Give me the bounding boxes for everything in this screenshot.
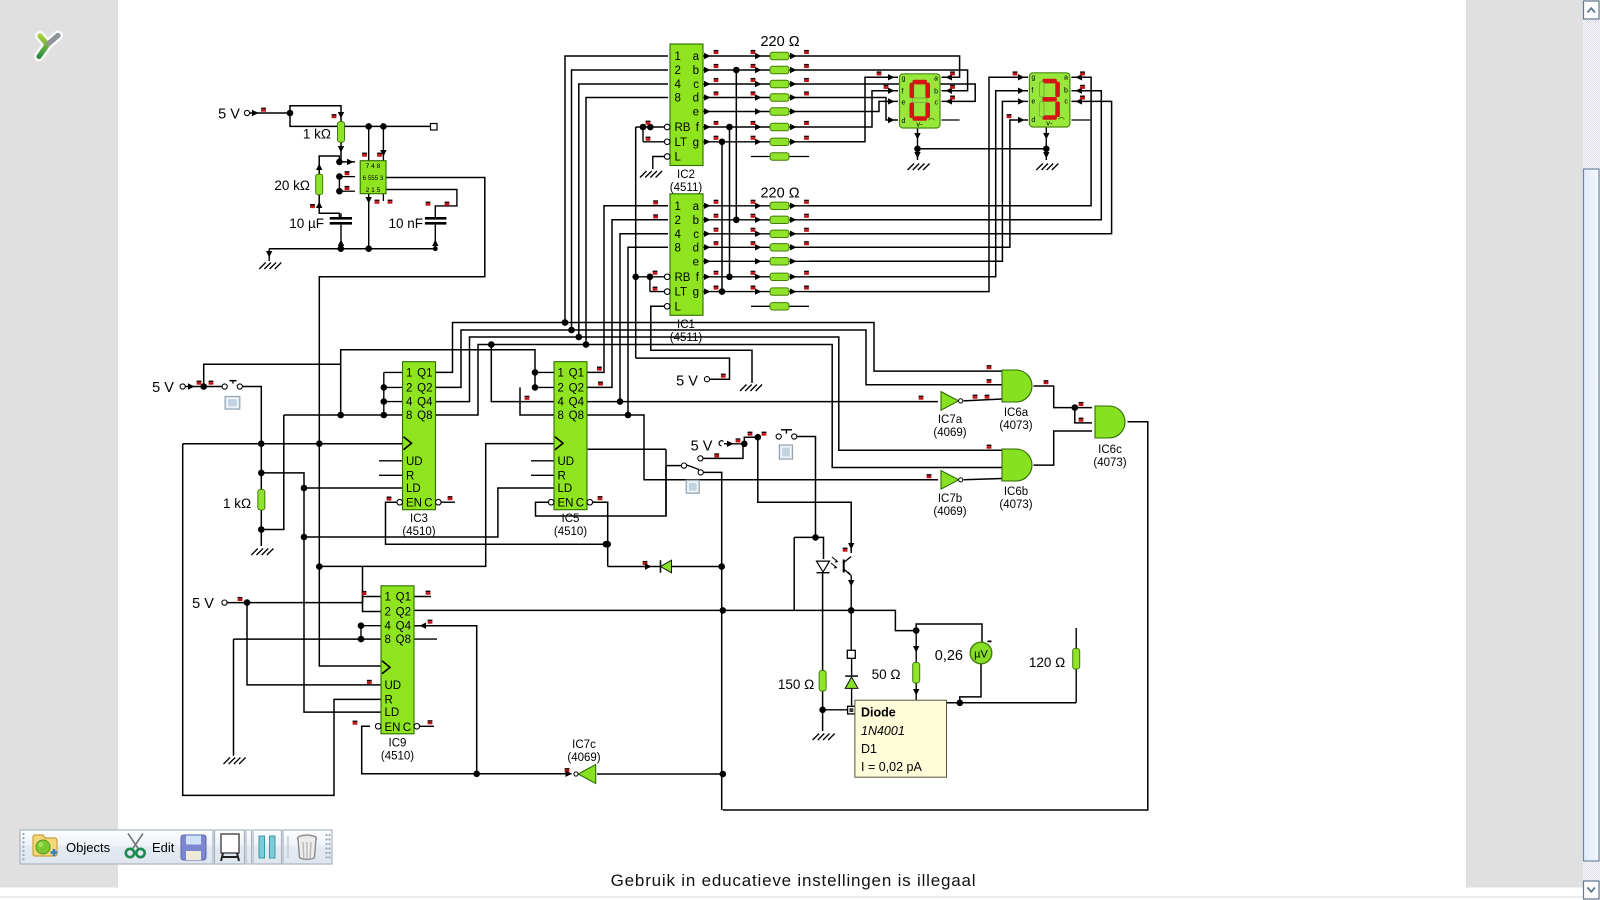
op-amp IC2 (4511): [670, 44, 703, 166]
svg-text:IC3: IC3: [410, 513, 428, 525]
mark IC6a out: [1044, 380, 1049, 382]
wire 120 top stub: [1075, 628, 1077, 649]
wire led left drop: [793, 537, 795, 610]
svg-text:RB: RB: [675, 272, 691, 284]
ground IC2 L: [640, 171, 647, 178]
wire link f-f: [729, 127, 731, 277]
wire 5V wire right: [703, 444, 743, 459]
left grey sidebar: [0, 0, 118, 888]
svg-text:1: 1: [385, 592, 391, 604]
wire 555 out pin3 loop: [319, 178, 485, 667]
wire IC3 Q8 branch to gates: [586, 345, 1002, 468]
wire IC3 EN wire: [386, 502, 606, 544]
wire 150 bottom: [822, 691, 824, 731]
svg-text:7 4 8: 7 4 8: [366, 163, 381, 170]
wire RN2 row 6 right: [789, 141, 809, 143]
wire RN2 row 0 right: [789, 55, 809, 57]
svg-text:e: e: [1031, 98, 1035, 105]
wire IC5 Q8 to IC1 pin8: [588, 247, 669, 415]
resistor 220ohm RN13: [770, 244, 789, 251]
wire junction split LED: [794, 537, 823, 559]
arrow into R1: [338, 112, 344, 119]
wire IC5 pin4 feed: [491, 345, 554, 402]
wire RN1 row 5 left: [703, 276, 770, 278]
mark IC6a in1: [987, 365, 992, 367]
resistor R1 1k: [338, 122, 345, 143]
svg-text:f: f: [1031, 88, 1033, 95]
svg-text:IC6a: IC6a: [1004, 407, 1029, 419]
wire RN2 row 5 right: [789, 126, 809, 128]
wire IC1 L to ground route: [651, 306, 752, 383]
svg-text:220 Ω: 220 Ω: [760, 186, 799, 202]
wire LD chain down: [304, 537, 381, 712]
svg-text:10 nF: 10 nF: [388, 216, 423, 231]
switch S2 body: [779, 445, 792, 459]
svg-text:LD: LD: [385, 707, 400, 719]
wire R1 top rail to square terminal: [345, 125, 432, 127]
AND gate IC6c (4073): [1095, 406, 1125, 438]
svg-text:(4510): (4510): [381, 750, 414, 762]
inverter IC7a (4069): [941, 392, 959, 411]
svg-text:b: b: [934, 89, 938, 96]
wire DS2 dp stub: [1072, 119, 1091, 121]
wire left tall rail: [183, 444, 381, 796]
wire RN1 row 4 right: [789, 260, 809, 262]
IC 555 body: [360, 161, 386, 194]
svg-text:R: R: [385, 694, 393, 706]
wire RN2 row 3 right: [789, 97, 809, 99]
resistor R6 120: [1073, 649, 1080, 670]
wire IC5 Q1 to IC1 pin1: [588, 206, 669, 373]
svg-text:LD: LD: [558, 483, 573, 495]
wire RN1 row 2 left: [703, 233, 770, 235]
ground 1k: [251, 549, 257, 556]
svg-text:IC2: IC2: [677, 169, 695, 181]
wire 5V node down right rail: [290, 113, 338, 126]
svg-text:150 Ω: 150 Ω: [778, 677, 814, 692]
wire 555 pins 6,2 tie: [338, 177, 340, 192]
wire to meter branch: [851, 610, 916, 630]
svg-text:c: c: [693, 79, 699, 91]
switch S1 body: [225, 397, 240, 410]
svg-text:8: 8: [406, 410, 412, 422]
wire IC3 pin4 stub: [384, 401, 403, 403]
arrow DS1 gnd: [914, 133, 920, 140]
svg-text:1 kΩ: 1 kΩ: [303, 127, 331, 142]
wire 50 top lead: [915, 631, 917, 663]
svg-text:Q8: Q8: [396, 634, 411, 646]
resistor 220ohm RN24: [770, 108, 789, 115]
svg-text:IC7a: IC7a: [938, 414, 963, 426]
wire cap C1 bottom: [340, 225, 342, 249]
wire IC6c in2 link: [1075, 408, 1092, 423]
svg-text:IC7c: IC7c: [572, 739, 596, 751]
wire meter bottom: [960, 664, 981, 703]
arrow gnd: [266, 251, 272, 258]
wire RN1 c to DS2 c: [809, 101, 1112, 233]
svg-text:C: C: [576, 498, 584, 510]
junction: [287, 110, 294, 117]
junction IC5 Q8 branch: [625, 412, 632, 419]
wire RB link down then to 5V: [635, 127, 637, 358]
ground 150: [813, 734, 820, 741]
svg-text:c: c: [1064, 98, 1068, 105]
svg-text:f: f: [902, 89, 904, 96]
wire 555 pin1 down: [368, 194, 370, 249]
wire RN2 a to DS1 a: [809, 56, 960, 77]
svg-text:C: C: [403, 722, 411, 734]
junctions 555 left: [336, 173, 343, 180]
wire 1k leads: [260, 444, 262, 490]
wire 5V up branch: [204, 364, 341, 386]
pause icon: [259, 836, 265, 858]
wire IC7a out: [964, 399, 1003, 401]
save icon (floppy): [181, 835, 206, 860]
ground IC9: [224, 758, 231, 765]
wire IC1 LT riser: [649, 277, 651, 292]
svg-text:1 kΩ: 1 kΩ: [223, 496, 251, 511]
svg-text:(4069): (4069): [933, 427, 966, 439]
svg-text:Q4: Q4: [569, 397, 585, 409]
wire common link displays: [918, 148, 1047, 150]
svg-text:8: 8: [385, 634, 391, 646]
scrollbar down button: [1584, 881, 1600, 899]
resistor 220ohm RN21: [770, 66, 789, 73]
ground IC1 L: [740, 385, 747, 392]
wire RN2 row 2 left: [703, 83, 770, 85]
power terminal 5V mid-left: [180, 384, 185, 389]
svg-text:RB: RB: [675, 122, 691, 134]
wire IC9 pin4 stub: [361, 625, 381, 627]
wire IC9 Q2 long: [415, 609, 852, 611]
7-segment display DS2 showing 3: [1029, 73, 1070, 127]
wire diode row: [608, 566, 722, 568]
svg-text:b: b: [1064, 88, 1068, 95]
arrow under C2: [432, 240, 438, 247]
svg-text:1: 1: [558, 367, 564, 379]
svg-text:(4511): (4511): [670, 332, 703, 344]
svg-text:a: a: [934, 75, 938, 82]
arrow DS2 gnd: [1043, 133, 1049, 140]
counter IC3 (4510): [403, 362, 436, 510]
resistor 220ohm RN14: [770, 258, 789, 265]
wire lever riser: [665, 449, 667, 516]
wire IC6b out to IC6c: [1034, 431, 1093, 465]
svg-text:(4511): (4511): [670, 182, 703, 194]
wire left rail to 1k bottom: [261, 415, 284, 530]
wire IC2 LT riser: [642, 127, 644, 142]
wire 5V to IC9 pin1: [227, 597, 381, 603]
photodiode D3: [817, 561, 830, 572]
svg-text:5 V: 5 V: [218, 107, 240, 123]
wire pin6 stub: [339, 176, 355, 178]
AND gate IC6b (4073): [1002, 449, 1032, 481]
svg-text:(4510): (4510): [554, 526, 587, 538]
mark IC7b in: [927, 474, 932, 476]
right grey sidebar: [1466, 0, 1583, 888]
wire R1 bottom to 555: [339, 142, 341, 162]
op-amp IC1 (4511): [670, 194, 703, 315]
wire IC3 Q8 to IC2 pin8: [436, 98, 669, 416]
wire RN2 row 5 left: [703, 126, 770, 128]
svg-text:0,26: 0,26: [935, 648, 963, 664]
svg-text:2: 2: [558, 382, 564, 394]
svg-text:µV: µV: [974, 649, 988, 661]
wire 1k bottom lead: [260, 510, 262, 546]
arrow DS1 gnd2: [914, 152, 920, 159]
wire RN1 b to DS2 b: [809, 91, 1101, 220]
svg-text:R: R: [558, 470, 566, 482]
wire IC5 R stub: [531, 474, 554, 476]
wire IC3 R stub: [379, 474, 403, 476]
wire DS1 common down: [917, 128, 919, 149]
trash icon: [288, 835, 317, 859]
wire IC3 Q2 branch to gates: [572, 330, 1003, 385]
wire RN1 e to DS2 e: [809, 101, 1028, 261]
svg-text:(4073): (4073): [999, 499, 1032, 511]
svg-text:Q1: Q1: [396, 592, 411, 604]
wire cap C1 top left lead: [340, 213, 342, 217]
svg-text:2: 2: [675, 215, 681, 227]
resistor 220ohm RN2dp: [770, 153, 789, 160]
wire lever switch left wire: [666, 465, 682, 467]
svg-text:5 V: 5 V: [691, 439, 713, 455]
wire IC5 pin1 stub: [535, 371, 554, 373]
wire cap C2 bottom: [434, 225, 436, 249]
inverter IC7b (4069): [941, 471, 959, 490]
power terminal 5V top: [244, 110, 249, 115]
svg-text:10 µF: 10 µF: [289, 216, 324, 231]
wire RN1 row 6 right: [789, 291, 809, 293]
wire IC5 pin8 feed: [520, 387, 554, 415]
wire RN2 g to DS1 g: [809, 77, 898, 142]
wire IC5 pin2 stub: [535, 386, 554, 388]
wire DS1 dp stub: [942, 119, 960, 121]
wire IC9 pin4-8 tie: [360, 626, 362, 639]
wire drop 8: [382, 126, 384, 160]
wire lever row to IC5: [588, 448, 666, 450]
svg-text:(4510): (4510): [402, 526, 435, 538]
svg-text:b: b: [693, 65, 699, 77]
wire osc row to IC5 clock: [319, 444, 556, 567]
wire IC3 Q1 branch to gates: [565, 323, 1002, 372]
resistor 220ohm RN11: [770, 216, 789, 223]
arrow R1 bottom: [338, 146, 344, 153]
svg-text:IC6c: IC6c: [1098, 444, 1122, 456]
svg-text:I = 0,02 pA: I = 0,02 pA: [861, 760, 922, 774]
wire 5V down to UD: [247, 603, 381, 685]
svg-text:IC6b: IC6b: [1004, 486, 1028, 498]
svg-text:v-: v-: [916, 119, 923, 128]
wire curl stub: [724, 443, 744, 445]
wire RN2 e to DS1 e: [809, 101, 898, 111]
junctions rail: [338, 245, 345, 252]
wire IC3 Q2 to IC2 pin2: [436, 70, 669, 387]
wire IC3 Q4 branch to gates: [579, 337, 1002, 450]
wire clock row IC3: [183, 443, 403, 445]
counter IC5 (4510): [554, 362, 587, 510]
svg-text:2: 2: [385, 607, 391, 619]
wire IC6c output long: [723, 422, 1148, 810]
svg-text:(4073): (4073): [1093, 457, 1126, 469]
svg-text:c: c: [935, 99, 939, 106]
svg-text:b: b: [693, 215, 699, 227]
counter IC9 (4510): [381, 586, 414, 734]
wire RN1 d to DS2 d: [809, 120, 1028, 247]
wire RN1 row 4 left: [703, 260, 770, 262]
wire IC5 UD stub: [531, 460, 554, 462]
resistor 220ohm RN1dp: [770, 303, 789, 310]
power terminal 5V mid: [704, 377, 709, 382]
capacitor C1 10uF: [330, 217, 352, 220]
Yenka logo: [39, 36, 58, 57]
wire IC9 Q8 stub: [415, 638, 438, 640]
wire IC5 Q2 to IC1 pin2: [588, 220, 669, 388]
svg-text:Gebruik in educatieve instelli: Gebruik in educatieve instellingen is il…: [611, 871, 977, 890]
wire RN1 row 3 right: [789, 246, 809, 248]
mark 10nF top: [426, 202, 431, 204]
Objects icon (folder with green ball): [33, 835, 58, 856]
resistor R4 150: [819, 671, 826, 692]
wire IC5 C wire: [593, 502, 608, 566]
wire IC3 Q1 to IC2 pin1: [436, 56, 669, 372]
inverter IC7c (4069): [578, 765, 596, 784]
wire RN1 row 6 left: [703, 291, 770, 293]
wire RN2 c to DS1 c: [809, 84, 975, 101]
wire IC6a out to IC6c: [1034, 386, 1093, 408]
wire RN1 g to DS2 g: [809, 77, 1028, 291]
svg-text:120 Ω: 120 Ω: [1029, 655, 1065, 670]
wire RN2 row 0 left: [703, 55, 770, 57]
svg-text:1N4001: 1N4001: [861, 724, 905, 738]
svg-text:Q2: Q2: [396, 607, 411, 619]
wire 555 right pin lower: [386, 190, 457, 219]
svg-text:c: c: [693, 229, 699, 241]
wire node to 555 pin7row: [339, 161, 355, 163]
svg-text:a: a: [693, 201, 700, 213]
resistor 220ohm RN20: [770, 52, 789, 59]
svg-text:20 kΩ: 20 kΩ: [274, 178, 310, 193]
ground DS1: [908, 164, 915, 171]
wire 5V to node: [250, 112, 291, 114]
wire lever switch to drop: [703, 472, 721, 810]
wire RN1 row 5 right: [789, 276, 809, 278]
wire 5V mid wire to RB rail: [636, 358, 730, 379]
svg-text:6 555 3: 6 555 3: [363, 175, 384, 182]
wire RN1 dp leads: [751, 305, 770, 307]
symbol square above D1: [847, 650, 855, 658]
svg-text:5 V: 5 V: [152, 380, 174, 396]
svg-text:UD: UD: [406, 456, 423, 468]
svg-text:v-: v-: [1046, 118, 1053, 127]
wire drop 7: [368, 126, 370, 160]
wire IC9 Q1 stub: [415, 596, 432, 598]
wire D1 bottom lead: [851, 688, 853, 707]
svg-text:2: 2: [675, 65, 681, 77]
diode D1 1N4001: [845, 675, 858, 677]
wire RN2 dp lead r: [789, 156, 809, 158]
scrollbar up button: [1584, 1, 1600, 19]
wire RN1 dp lead r: [789, 305, 809, 307]
wire meter loop top: [916, 624, 982, 643]
resistor 220ohm RN15: [770, 273, 789, 280]
wire IC3 Q4 to IC2 pin4: [436, 84, 669, 402]
wire RN1 row 2 right: [789, 233, 809, 235]
mark IC6a in2: [987, 379, 992, 381]
svg-text:4: 4: [385, 621, 392, 633]
arrow 20k bottom: [316, 202, 322, 209]
scrollbar thumb: [1584, 169, 1600, 861]
svg-text:C: C: [424, 498, 432, 510]
resistor R5 50: [913, 663, 920, 684]
wire link to diode D1: [823, 709, 848, 711]
wire LD to IC5: [304, 488, 554, 537]
7-segment display DS1 showing 0: [900, 74, 941, 128]
resistor 220ohm RN10: [770, 202, 789, 209]
power terminal 5V switch area: [698, 456, 703, 461]
wire IC7c input wire: [597, 773, 723, 775]
wire RN2 dp leads: [751, 156, 770, 158]
opto arrows: [831, 557, 837, 567]
tooltip Diode: [855, 700, 947, 777]
wire RN2 row 1 left: [703, 69, 770, 71]
svg-text:50 Ω: 50 Ω: [872, 667, 901, 682]
svg-text:d: d: [693, 93, 699, 105]
svg-text:Q4: Q4: [396, 621, 412, 633]
wire IC9 pin8 row: [234, 638, 382, 640]
svg-text:e: e: [693, 107, 699, 119]
svg-text:d: d: [902, 118, 906, 125]
junction IC5 Q4 branch: [617, 398, 624, 405]
svg-text:L: L: [675, 152, 682, 164]
diode D2 green left: [661, 560, 672, 573]
push button S2: [776, 434, 781, 439]
square terminal: [431, 124, 438, 131]
svg-text:UD: UD: [558, 456, 575, 468]
wire pin2 stub: [339, 190, 355, 192]
svg-text:LD: LD: [406, 483, 421, 495]
wire RN1 row 1 left: [703, 219, 770, 221]
mark pin5: [375, 200, 380, 202]
svg-text:e: e: [693, 256, 699, 268]
resistor 220ohm RN12: [770, 230, 789, 237]
wire 5V loop up to R1 top: [290, 106, 341, 122]
svg-text:(4073): (4073): [999, 420, 1032, 432]
wire RN1 row 0 left: [703, 205, 770, 207]
wire IC7b out: [964, 479, 1003, 480]
svg-text:g: g: [693, 287, 699, 299]
wire RN2 row 6 left: [703, 141, 770, 143]
svg-text:a: a: [1064, 74, 1068, 81]
wire IC9 EN wire: [362, 726, 572, 774]
resistor R2 20k: [316, 174, 323, 195]
wire riser x340 and top link: [341, 350, 535, 415]
push switch S1: [222, 384, 227, 389]
wire RN2 row 4 left: [703, 111, 770, 113]
svg-text:Q1: Q1: [569, 367, 584, 379]
scrollbar track: [1583, 0, 1600, 900]
wire IC1 RB tie: [636, 276, 668, 278]
svg-text:2 1 5: 2 1 5: [366, 187, 381, 194]
svg-text:Q4: Q4: [417, 397, 433, 409]
wire IC2 L to ground: [653, 157, 667, 170]
wire IC3 pin1 stub: [384, 371, 403, 373]
svg-text:1: 1: [675, 51, 681, 63]
wire IC9 pin2 from osc: [363, 566, 382, 611]
toolbar panel: [20, 830, 332, 864]
svg-text:LT: LT: [675, 287, 688, 299]
resistor 220ohm RN23: [770, 94, 789, 101]
